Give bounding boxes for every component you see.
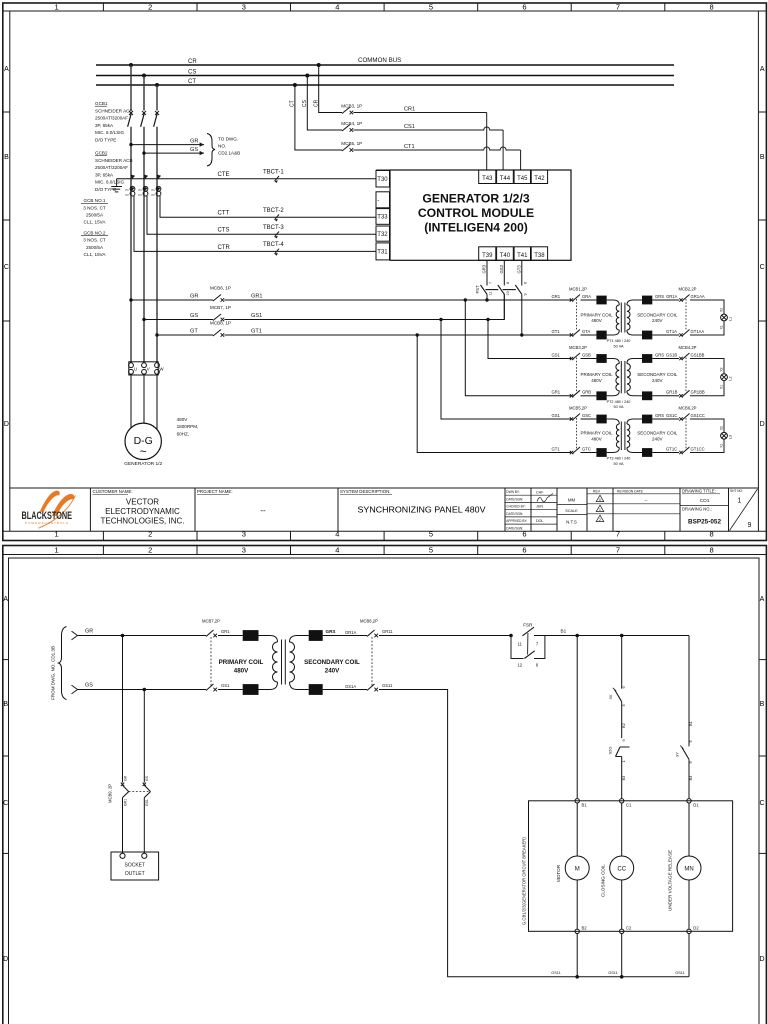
wire T41 to FST contact 3 xyxy=(521,260,523,285)
svg-text:MCB2,2P: MCB2,2P xyxy=(679,287,697,292)
link bar FST poles 1-2 xyxy=(486,289,499,291)
arrow GR entry xyxy=(72,631,78,640)
wire generator lead 1 xyxy=(130,375,132,434)
circuit breaker MCB3,2P primary 2P xyxy=(570,353,580,398)
svg-text:B3: B3 xyxy=(621,775,626,781)
svg-text:GSC: GSC xyxy=(582,413,591,418)
wire feeder continues below ACB pole 3 xyxy=(156,127,158,363)
wire CT3 secondary to CTT line xyxy=(160,196,376,217)
label GR1B GR1BB xyxy=(666,390,705,395)
node PT3 top tap on GS line xyxy=(439,318,442,321)
wire MCB9 to socket outlet right xyxy=(143,798,145,854)
label D-G xyxy=(134,435,153,459)
socket outlet box xyxy=(111,852,159,880)
svg-text:SECONDARY COIL: SECONDARY COIL xyxy=(637,312,678,317)
fuse secondary top xyxy=(642,296,652,305)
svg-text:A: A xyxy=(760,66,765,73)
svg-text:GTC: GTC xyxy=(582,446,591,451)
svg-text:FST: FST xyxy=(475,285,480,294)
label PT2 480/240 50 VA xyxy=(607,400,631,409)
svg-text:C1: C1 xyxy=(626,803,632,808)
label GT1C GT1CC xyxy=(666,446,705,451)
label FST contact numbers 7/11 xyxy=(489,282,493,296)
svg-text:B1: B1 xyxy=(582,803,588,808)
svg-text:GCB NO.1: GCB NO.1 xyxy=(84,198,106,203)
svg-text:CO1: CO1 xyxy=(700,498,710,504)
svg-text:2: 2 xyxy=(148,3,152,12)
svg-text:480V: 480V xyxy=(591,318,602,323)
svg-text:CS: CS xyxy=(302,99,308,107)
svg-text:7: 7 xyxy=(616,530,620,539)
terminal C2 on box xyxy=(620,929,624,933)
svg-text:P2: P2 xyxy=(152,193,156,197)
labels MCB9 wire tags xyxy=(123,775,149,806)
node GT tap feeder3 xyxy=(155,333,158,336)
label CTR / TBCT-4 xyxy=(218,242,285,256)
wire secondary top to fuse page2 xyxy=(297,635,309,637)
label PRIMARY COIL 480V page2 xyxy=(219,659,264,675)
svg-text:SHT NO:: SHT NO: xyxy=(730,489,743,493)
wire GR to PT2 bottom xyxy=(465,300,571,396)
GCB1/2/3 generator circuit breaker box xyxy=(529,801,733,932)
fuse secondary top xyxy=(642,415,652,424)
svg-text:GR1: GR1 xyxy=(552,390,561,395)
fuse primary bottom xyxy=(596,391,606,400)
svg-text:MCB8, 1P: MCB8, 1P xyxy=(210,321,231,326)
transformer PT1 primary coil xyxy=(607,300,620,335)
svg-text:MIC. 6.0/LSIG: MIC. 6.0/LSIG xyxy=(95,130,125,135)
svg-text:P1: P1 xyxy=(126,188,130,192)
svg-text:7: 7 xyxy=(616,3,620,12)
wire secondary top to fuse xyxy=(639,358,642,360)
node B1 motor branch xyxy=(575,634,579,638)
relay contact FST pole 1 xyxy=(481,285,488,294)
svg-text:GR1B: GR1B xyxy=(666,390,678,395)
svg-text:C: C xyxy=(760,264,765,271)
wire MCB9 to socket outlet left xyxy=(122,798,124,854)
svg-text:9: 9 xyxy=(523,293,527,295)
wire fuse to primary coil top xyxy=(259,635,271,637)
svg-text:T31: T31 xyxy=(377,250,388,256)
svg-text:D: D xyxy=(760,421,765,428)
node FST3 on GT line xyxy=(520,333,523,336)
transformer PT2 secondary coil xyxy=(627,359,639,396)
svg-text:X1: X1 xyxy=(720,385,724,389)
label GR1A GR1AA xyxy=(655,294,705,299)
svg-text:VECTOR: VECTOR xyxy=(126,498,159,507)
node socket tap on GS xyxy=(143,688,147,692)
current transformer CT1 xyxy=(126,186,135,197)
svg-text:D2: D2 xyxy=(693,926,699,931)
labels GS11 on bus xyxy=(551,971,684,975)
svg-text:5: 5 xyxy=(429,3,433,12)
svg-text:1: 1 xyxy=(599,508,601,512)
lamp L1 xyxy=(721,314,728,321)
svg-text:T38: T38 xyxy=(534,253,545,259)
fuse primary bottom page2 xyxy=(243,684,259,695)
circuit breaker MCB6,2P secondary 2P xyxy=(679,414,689,455)
wire CR to MCB3 xyxy=(319,65,342,113)
wire secondary to lamp L2 xyxy=(690,359,724,396)
wire CC branch middle xyxy=(621,702,623,738)
svg-text:CTE: CTE xyxy=(218,172,230,178)
wire GS to PT3 top xyxy=(441,320,572,420)
terminal C1 on box xyxy=(620,799,624,803)
svg-text:2500AT/3200AF: 2500AT/3200AF xyxy=(95,165,128,170)
svg-text:GT1: GT1 xyxy=(552,446,561,451)
wire motor to B2 xyxy=(576,880,578,929)
svg-text:2: 2 xyxy=(148,530,152,539)
svg-text:SOCKET: SOCKET xyxy=(125,863,146,869)
wire T39 to FST contact 1 xyxy=(486,260,488,285)
svg-text:1800RPM,: 1800RPM, xyxy=(177,424,199,429)
svg-text:APPRVED BY:: APPRVED BY: xyxy=(506,519,527,523)
svg-text:L1: L1 xyxy=(729,317,733,321)
svg-text:480V: 480V xyxy=(591,436,602,441)
svg-text:GS1: GS1 xyxy=(251,313,262,319)
svg-text:GS11: GS11 xyxy=(675,971,684,975)
wire fuse to primary coil bottom xyxy=(259,689,271,691)
label PRIMARY COIL 480V xyxy=(580,372,613,383)
svg-text:GR1A: GR1A xyxy=(345,630,357,635)
svg-text:8: 8 xyxy=(710,545,714,554)
svg-text:GT1C: GT1C xyxy=(666,446,677,451)
svg-text:CTS: CTS xyxy=(218,228,230,234)
circuit breaker ACB pole 1 (GCB) xyxy=(128,111,133,127)
svg-text:7: 7 xyxy=(616,545,620,554)
svg-text:D: D xyxy=(759,956,764,963)
node CR bus tap for MCB3 xyxy=(317,63,321,67)
wire GT to PT3 bottom xyxy=(417,335,571,453)
svg-text:TBCT-3: TBCT-3 xyxy=(263,225,284,231)
svg-text:1: 1 xyxy=(55,530,59,539)
link bar FST poles 2-3 xyxy=(503,289,516,291)
svg-text:6: 6 xyxy=(523,282,527,284)
svg-text:GR3: GR3 xyxy=(482,264,487,273)
svg-text:OUTLET: OUTLET xyxy=(125,871,145,877)
svg-text:U: U xyxy=(134,367,137,372)
title block drawing title CO1 xyxy=(682,489,720,504)
svg-text:1: 1 xyxy=(55,3,59,12)
note GCB NO.1 CT data xyxy=(81,198,108,225)
wire FST contact 2 to line xyxy=(503,294,505,319)
wire CR1 to T43 xyxy=(353,113,486,171)
page 2 sheet border frame xyxy=(3,546,767,1024)
svg-text:2500/5A: 2500/5A xyxy=(86,245,104,250)
label SECONDARY COIL 240V xyxy=(637,312,678,323)
svg-text:D: D xyxy=(3,956,8,963)
svg-text:CL1, 15VA: CL1, 15VA xyxy=(84,252,107,257)
circuit breaker MCB7 1P xyxy=(213,314,224,321)
svg-text:3P, 65kA: 3P, 65kA xyxy=(95,172,114,177)
wire GR1 line to PT1 primary xyxy=(224,299,571,301)
svg-text:GTA: GTA xyxy=(582,329,591,334)
svg-text:PRIMARY COIL: PRIMARY COIL xyxy=(580,372,613,377)
wire GR to MCB9 xyxy=(122,636,124,783)
circuit breaker MCB6 1P xyxy=(213,295,224,302)
fuse secondary bottom page2 xyxy=(309,684,323,695)
wire MN to D2 xyxy=(688,880,690,929)
svg-text:2500AT/3200AF: 2500AT/3200AF xyxy=(95,116,128,121)
svg-text:GR1: GR1 xyxy=(552,294,561,299)
svg-text:50 VA: 50 VA xyxy=(613,344,624,348)
svg-text:MCB3,2P: MCB3,2P xyxy=(569,345,587,350)
node GR tap on feeder1 xyxy=(129,143,132,146)
svg-text:MCB6, 1P: MCB6, 1P xyxy=(210,286,231,291)
svg-text:3P, 65kA: 3P, 65kA xyxy=(95,123,114,128)
wire GS to MCB9 xyxy=(143,690,145,783)
terminal T41 xyxy=(514,247,530,260)
svg-text:GS1: GS1 xyxy=(221,683,230,688)
wire secondary bottom to MCB xyxy=(652,452,679,454)
terminal B1 on box xyxy=(575,799,579,803)
svg-text:240V: 240V xyxy=(652,378,663,383)
current transformer CT3 xyxy=(152,186,161,197)
common bus CS xyxy=(96,75,674,77)
note GCB NO.2 CT data xyxy=(81,230,108,257)
svg-text:480V: 480V xyxy=(177,417,189,422)
svg-text:GS11: GS11 xyxy=(608,971,617,975)
svg-text:MCB5, 1P: MCB5, 1P xyxy=(341,141,362,146)
wire FSR to B1 line xyxy=(534,635,689,637)
svg-text:GR1A: GR1A xyxy=(666,294,678,299)
svg-text:8: 8 xyxy=(536,663,539,668)
transformer T1 core page2 xyxy=(282,640,286,685)
wire motor branch B1 xyxy=(576,636,578,799)
svg-text:CL1, 15VA: CL1, 15VA xyxy=(84,220,107,225)
pressure switch contact S2G xyxy=(616,747,630,757)
wire secondary bottom to fuse page2 xyxy=(297,689,309,691)
svg-text:11: 11 xyxy=(518,642,523,647)
node FSR tap xyxy=(509,634,513,638)
svg-text:D/O TYPE: D/O TYPE xyxy=(95,138,116,143)
svg-text:GCB NO.2: GCB NO.2 xyxy=(84,230,106,235)
wire secondary bottom to fuse xyxy=(639,395,642,397)
svg-text:7: 7 xyxy=(536,642,539,647)
svg-text:SECONDARY COIL: SECONDARY COIL xyxy=(637,372,678,377)
svg-text:GS11: GS11 xyxy=(382,683,393,688)
svg-text:A: A xyxy=(3,596,8,603)
wire secondary top to MCB xyxy=(652,299,679,301)
svg-text:MOTOR: MOTOR xyxy=(556,864,561,882)
labels U V W xyxy=(134,367,164,372)
svg-text:GT1: GT1 xyxy=(251,329,262,335)
svg-text:JUN: JUN xyxy=(536,505,543,509)
svg-text:B1: B1 xyxy=(688,720,693,726)
node PT3 bottom tap on GT line xyxy=(416,333,419,336)
transformer T1 primary coil page2 xyxy=(270,636,278,690)
svg-text:240V: 240V xyxy=(325,668,340,675)
svg-text:C: C xyxy=(4,264,9,271)
node GS tap feeder2 xyxy=(142,318,145,321)
svg-text:GCB2: GCB2 xyxy=(95,151,108,156)
svg-text:PT1 480 / 240: PT1 480 / 240 xyxy=(607,339,631,343)
terminal B2 on box xyxy=(575,929,579,933)
wire PT1 primary bottom xyxy=(581,334,597,336)
svg-text:BLACKSTONE: BLACKSTONE xyxy=(22,510,73,522)
svg-text:MIC. 6.0/LSIG: MIC. 6.0/LSIG xyxy=(95,180,125,185)
svg-text:SYNCHRONIZING PANEL 480V: SYNCHRONIZING PANEL 480V xyxy=(358,505,487,514)
svg-text:GT1AA: GT1AA xyxy=(691,329,705,334)
fuse secondary bottom xyxy=(642,448,652,457)
svg-text:60HZ,: 60HZ, xyxy=(177,431,190,436)
common bus CT xyxy=(96,84,674,86)
wire secondary top to fuse xyxy=(639,418,642,420)
transformer PT3 primary coil xyxy=(607,419,620,453)
label SECONDARY COIL 240V page2 xyxy=(304,659,360,675)
wire secondary top to MCB8 xyxy=(323,635,367,637)
svg-text:2: 2 xyxy=(148,545,152,554)
wire CT1 to T45 xyxy=(353,147,520,170)
svg-text:CR1: CR1 xyxy=(404,106,415,112)
svg-text:T41: T41 xyxy=(517,253,528,259)
svg-text:GR: GR xyxy=(190,294,198,300)
svg-text:11: 11 xyxy=(489,292,493,296)
fuse primary top xyxy=(596,296,606,305)
wire CC to C2 xyxy=(621,880,623,929)
svg-text:TBCT-2: TBCT-2 xyxy=(263,208,284,214)
wire GS to DWG CD2.1A&B xyxy=(144,152,204,154)
label FST contact numbers 8/10 xyxy=(506,282,510,296)
title block system description xyxy=(340,489,486,514)
fuse primary top xyxy=(596,415,606,424)
svg-text:B1: B1 xyxy=(561,629,567,634)
node FST1 on GR line xyxy=(485,298,488,301)
svg-text:GR1: GR1 xyxy=(221,629,230,634)
svg-text:5: 5 xyxy=(429,530,433,539)
svg-text:CT: CT xyxy=(290,100,296,107)
svg-text:C: C xyxy=(759,800,764,807)
circuit breaker MCB5,2P primary 2P xyxy=(570,414,580,455)
labels 3X 9 5 xyxy=(608,686,626,707)
svg-text:GS1C: GS1C xyxy=(666,413,677,418)
arrow GR xyxy=(200,142,204,146)
svg-text:GRS: GRS xyxy=(655,413,664,418)
wire B1 to motor xyxy=(576,803,578,856)
terminal T45 xyxy=(514,170,530,184)
wire CTE common line to T30 xyxy=(117,178,376,180)
svg-text:TBCT-1: TBCT-1 xyxy=(263,170,284,176)
svg-text:CLOSING COIL: CLOSING COIL xyxy=(601,864,606,897)
svg-text:FSR: FSR xyxy=(523,623,533,628)
svg-text:PRIMARY COIL: PRIMARY COIL xyxy=(580,312,613,317)
svg-text:CR: CR xyxy=(313,99,319,107)
wire CT to MCB5 xyxy=(295,85,342,150)
wire secondary bottom to fuse xyxy=(639,452,642,454)
svg-text:50 VA: 50 VA xyxy=(613,405,624,409)
label PT3 480/240 50 VA xyxy=(607,457,631,466)
svg-text:TO DWG.: TO DWG. xyxy=(218,137,238,142)
svg-text:X2: X2 xyxy=(720,367,724,371)
wire GS to PT2 top xyxy=(488,320,572,359)
wire C2 to GS11 bus xyxy=(621,934,623,977)
node GR tap feeder1 xyxy=(129,298,132,301)
svg-text:MCB4,2P: MCB4,2P xyxy=(679,345,697,350)
node CT secondary junction arrow 2 xyxy=(144,174,149,179)
transformer PT2 primary coil xyxy=(607,359,620,396)
svg-text:SCHNEIDER ACB: SCHNEIDER ACB xyxy=(95,158,133,163)
wire feeder phase R vertical xyxy=(130,65,132,111)
wire feeder phase S vertical xyxy=(143,76,145,111)
svg-text:DATE/SGN:: DATE/SGN: xyxy=(506,526,523,530)
circuit breaker MCB4,2P secondary 2P xyxy=(679,353,689,398)
wire GR line to MCB6 xyxy=(131,299,213,301)
wire CT2 secondary to CTS line xyxy=(147,196,376,234)
svg-text:L3: L3 xyxy=(729,435,733,439)
wire PT1 primary top xyxy=(581,299,597,301)
node CT bus tap for MCB5 xyxy=(293,83,297,87)
svg-text:GS1B: GS1B xyxy=(666,352,677,357)
transformer T1 secondary coil page2 xyxy=(290,636,298,690)
svg-text:2: 2 xyxy=(599,518,601,522)
svg-text:X2: X2 xyxy=(720,426,724,430)
svg-text:SCALE: SCALE xyxy=(565,509,578,513)
svg-text:SYSTEM DESCRIPTION:: SYSTEM DESCRIPTION: xyxy=(340,489,391,494)
closing coil CC xyxy=(610,856,634,880)
terminal T38 xyxy=(531,247,547,260)
svg-text:GS: GS xyxy=(190,313,198,319)
svg-text:GRA: GRA xyxy=(582,294,591,299)
wire secondary to lamp L3 xyxy=(690,419,724,453)
node socket tap on GR xyxy=(121,634,125,638)
svg-text:MM: MM xyxy=(568,498,576,503)
brace from dwg xyxy=(59,627,67,700)
circuit breaker ACB pole 2 (GCB) xyxy=(141,111,146,127)
fuse primary top xyxy=(596,354,606,363)
title block project name xyxy=(197,489,266,515)
node feeder3 junction on CT bus xyxy=(155,83,159,87)
title block frame xyxy=(10,488,759,531)
circuit breaker MCB8 2P xyxy=(367,630,378,691)
svg-text:GS1A: GS1A xyxy=(345,684,356,689)
svg-text:DRAWING NO.:: DRAWING NO.: xyxy=(682,507,712,512)
label GR1 GRB xyxy=(552,390,592,395)
svg-text:240V: 240V xyxy=(652,318,663,323)
svg-text:X1: X1 xyxy=(720,325,724,329)
svg-text:T43: T43 xyxy=(482,176,493,182)
wire GS line to MCB7 xyxy=(144,319,213,321)
svg-text:GR1BB: GR1BB xyxy=(691,390,705,395)
svg-text:G.CB1/2/3(GENERATOR CIRCUIT BR: G.CB1/2/3(GENERATOR CIRCUIT BREAKER) xyxy=(521,837,526,925)
svg-text:MN: MN xyxy=(684,867,693,873)
fuse primary top page2 xyxy=(243,630,259,641)
svg-text:M: M xyxy=(575,867,580,873)
label GS1 GSB xyxy=(552,352,592,357)
terminal T42 xyxy=(531,170,547,184)
wire CS to MCB4 xyxy=(307,76,342,131)
wire CS1 to T44 xyxy=(353,127,503,170)
wire C1 to closing coil xyxy=(621,803,623,856)
svg-text:12: 12 xyxy=(517,663,522,668)
label SECONDARY COIL 240V xyxy=(637,431,678,442)
wire GS1 line xyxy=(224,294,504,320)
wire secondary to lamp L1 xyxy=(690,300,724,335)
wire generator lead 3 xyxy=(156,375,158,434)
svg-text:GENERATOR 1/2: GENERATOR 1/2 xyxy=(124,461,162,467)
wire CT1 secondary to CTR line xyxy=(134,196,376,251)
label SECONDARY COIL 240V xyxy=(637,372,678,383)
svg-text:T32: T32 xyxy=(377,232,388,238)
svg-text:9: 9 xyxy=(621,739,626,742)
svg-text:SECONDARY COIL: SECONDARY COIL xyxy=(304,659,360,666)
wire D1 to under voltage release xyxy=(688,803,690,856)
svg-text:P O W E R & C O N T R O L: P O W E R & C O N T R O L S xyxy=(25,521,68,525)
svg-text:GS: GS xyxy=(85,683,93,689)
svg-text:CS: CS xyxy=(188,70,196,76)
transformer PT1 core xyxy=(621,303,625,333)
svg-text:3: 3 xyxy=(242,545,246,554)
terminal T43 xyxy=(479,170,496,184)
